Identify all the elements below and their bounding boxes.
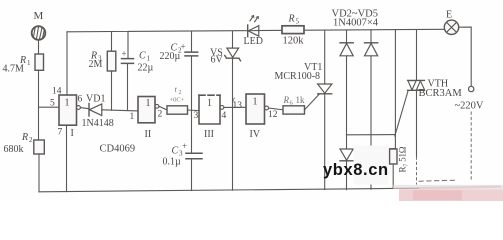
zener VS lead from rail — [232, 31, 234, 48]
label CD4069 — [100, 144, 136, 155]
label C2 + 220u — [160, 42, 186, 63]
pin labels 1 2 II — [130, 110, 163, 141]
thyristor VT1 MCR100-8 — [318, 84, 332, 94]
svg-text:III: III — [204, 129, 214, 140]
capacitor C2 220u — [185, 52, 198, 56]
faded bottom rail right — [420, 187, 500, 189]
watermark ybx8.cn — [323, 161, 389, 179]
svg-text:0.1µ: 0.1µ — [163, 157, 182, 168]
label VT1 MCR100-8 — [275, 62, 323, 82]
wire VD5 to bottom rail — [370, 161, 372, 189]
VT1 cathode lead to bottom rail — [324, 94, 326, 190]
svg-text:220µ: 220µ — [160, 51, 181, 62]
svg-text:CD4069: CD4069 — [100, 144, 136, 155]
svg-text:R₇ 51Ω: R₇ 51Ω — [398, 146, 408, 172]
wire C1 to signal node — [127, 64, 129, 111]
wire R1 to R2 with branch to pin5 — [38, 70, 40, 140]
pin labels 3 4 III — [194, 111, 227, 140]
diode VD5 — [365, 149, 378, 161]
gate I marking 1 — [65, 98, 70, 109]
wire gate III out to gate IV — [224, 106, 246, 108]
svg-text:MCR100-8: MCR100-8 — [275, 71, 321, 82]
label ~220V — [455, 101, 484, 112]
gate III marking 1 — [207, 98, 212, 109]
wire gate II out to resistor t2 — [159, 106, 167, 110]
svg-text:1N4148: 1N4148 — [82, 118, 114, 129]
svg-text:1: 1 — [130, 112, 135, 122]
label R2 680k — [4, 132, 34, 155]
resistor R3 — [107, 51, 116, 71]
resistor R1 — [35, 54, 44, 70]
svg-text:12: 12 — [268, 110, 278, 120]
pin labels 12 IV — [250, 110, 278, 140]
label M — [34, 10, 44, 22]
svg-text:1k: 1k — [296, 95, 306, 105]
resistor R3 lead from rail — [111, 32, 113, 52]
triac VTH top lead — [416, 30, 418, 80]
svg-text:6: 6 — [78, 95, 83, 105]
dashed wire terminal down — [470, 112, 472, 182]
wire R7 to bottom rail — [392, 164, 394, 188]
wire to gate I input pin5 — [39, 106, 60, 108]
wire lamp to terminal — [459, 27, 472, 86]
top VDD rail — [67, 29, 444, 32]
wire rail corner down at 395 — [394, 30, 396, 149]
svg-text:+: + — [181, 42, 186, 52]
svg-text:E: E — [446, 10, 452, 21]
wire t2 to gate III input — [188, 109, 200, 112]
capacitor C1 lead from rail — [127, 32, 129, 59]
svg-text:2: 2 — [158, 110, 163, 120]
svg-text:R: R — [283, 95, 290, 105]
svg-text:~220V: ~220V — [455, 101, 484, 112]
label 13 and t3 — [233, 96, 243, 112]
svg-text:ybx8.cn: ybx8.cn — [323, 161, 389, 179]
svg-text:+: + — [182, 141, 187, 151]
lamp E — [444, 20, 458, 34]
wire C3 to bottom rail — [191, 159, 193, 190]
svg-text:t: t — [175, 84, 178, 94]
wire mic to R1 — [38, 40, 40, 54]
svg-text:1: 1 — [27, 59, 31, 67]
pin 7 lead to ground rail — [66, 125, 68, 191]
svg-text:1: 1 — [147, 55, 151, 63]
resistor R7 top bend — [390, 148, 396, 150]
svg-text:2M: 2M — [89, 59, 103, 70]
wire VD1 to gate II input — [102, 110, 138, 111]
label VTH BCR3AM — [419, 79, 463, 100]
wire VD3 down across AC wire — [370, 56, 372, 149]
wire R2 to bottom rail — [38, 154, 40, 192]
watermark white halo — [354, 146, 389, 185]
triac gate diagonal to R7 node — [395, 91, 408, 136]
wire VS to bottom rail (crosses signal wire) — [232, 59, 234, 191]
wire gate IV out to R6 — [269, 108, 284, 110]
diode VD2 — [340, 43, 353, 56]
wire R6 to VT1 gate — [305, 94, 320, 110]
diode VD1 1N4148 — [89, 104, 102, 117]
svg-text:1: 1 — [207, 98, 212, 109]
resistor R5 (in series on rail) — [282, 26, 304, 34]
resistor R6 — [283, 106, 305, 114]
svg-text:2: 2 — [29, 136, 33, 144]
svg-text:680k: 680k — [4, 144, 24, 155]
label R3 2M — [89, 51, 103, 71]
resistor t2 — [167, 106, 188, 114]
gate II marking 1 — [146, 98, 151, 109]
svg-text:6V: 6V — [211, 55, 224, 66]
label LED — [244, 36, 263, 47]
pin labels 14 5 6 7 I — [50, 87, 83, 140]
svg-text:II: II — [145, 129, 152, 140]
svg-text:R: R — [21, 132, 28, 143]
svg-text:M: M — [34, 10, 44, 22]
svg-text:2: 2 — [179, 90, 182, 96]
svg-text:4: 4 — [222, 111, 227, 121]
thyristor VT1 anode lead — [324, 31, 326, 85]
svg-text:+: + — [122, 49, 127, 59]
svg-text:VD1: VD1 — [86, 94, 105, 105]
wire VD2 to VD4 with AC node — [346, 56, 348, 149]
label VS 6V — [210, 48, 224, 66]
LED (in series on rail) — [248, 16, 259, 37]
resistor R7 51ohm — [390, 149, 397, 164]
AC node wire to gate network — [347, 134, 396, 136]
svg-text:1: 1 — [253, 97, 258, 108]
label VD2~VD5 1N4007x4 — [332, 9, 379, 29]
label R5 120k — [283, 14, 305, 47]
label VD1 1N4148 — [82, 94, 114, 130]
svg-text:1: 1 — [146, 98, 151, 109]
diode VD2 lead — [346, 30, 348, 43]
capacitor C1 22u — [122, 59, 134, 64]
svg-text:+0C+: +0C+ — [170, 97, 185, 104]
dashed wire bottom horizontal — [419, 180, 455, 181]
label E — [446, 10, 452, 21]
gate II (inverter) — [138, 97, 159, 123]
svg-text:4.7M: 4.7M — [3, 64, 25, 75]
wire R3 to signal node — [111, 71, 113, 110]
svg-text:1N4007×4: 1N4007×4 — [333, 18, 379, 29]
svg-text:BCR3AM: BCR3AM — [419, 88, 463, 99]
zener diode VS 6V — [225, 48, 241, 61]
svg-text:R: R — [288, 14, 295, 25]
capacitor C2 lead from rail — [191, 31, 193, 52]
gate I (inverter 1/6 CD4069) — [59, 95, 80, 125]
gate III (inverter, dashed top) — [199, 95, 224, 124]
svg-text:C: C — [139, 51, 146, 62]
svg-text:5: 5 — [50, 99, 55, 109]
svg-text:3: 3 — [194, 111, 199, 121]
wire pin6 to VD1 — [80, 108, 88, 109]
svg-text:1: 1 — [65, 98, 70, 109]
diode VD3 lead — [370, 30, 372, 43]
svg-text:5: 5 — [296, 18, 300, 26]
triac VTH BCR3AM — [408, 80, 425, 90]
svg-text:IV: IV — [250, 129, 261, 140]
svg-text:120k: 120k — [283, 36, 305, 47]
capacitor C3 0.1u — [186, 153, 202, 159]
svg-text:LED: LED — [244, 36, 263, 47]
diode VD3 — [365, 43, 378, 56]
label R6 1k — [283, 95, 306, 107]
wire VD4 to bottom rail — [346, 161, 348, 190]
gate IV marking 1 — [253, 97, 258, 108]
triac bottom lead — [416, 91, 418, 158]
svg-text:C: C — [172, 146, 179, 157]
diode VD4 — [340, 149, 353, 161]
terminal circle — [469, 86, 474, 91]
label C3 + 0.1u — [163, 141, 188, 168]
pink watermark band — [393, 185, 503, 202]
label R7 51ohm rotated — [398, 146, 408, 172]
svg-text:I: I — [71, 128, 74, 139]
gate IV (inverter) — [246, 94, 269, 124]
wire C2 down through node to C3 — [191, 56, 193, 153]
pin 14 lead — [66, 32, 68, 95]
svg-text:14: 14 — [52, 87, 62, 97]
label + C1 22u — [122, 49, 154, 74]
triac bottom dashed lead — [416, 157, 418, 184]
label t2 — [170, 84, 185, 104]
bottom rail — [39, 188, 420, 192]
microphone M — [32, 26, 46, 40]
svg-text:7: 7 — [58, 128, 63, 138]
label R1 4.7M — [3, 55, 32, 75]
svg-text:22µ: 22µ — [138, 63, 154, 74]
resistor R2 — [34, 140, 45, 154]
